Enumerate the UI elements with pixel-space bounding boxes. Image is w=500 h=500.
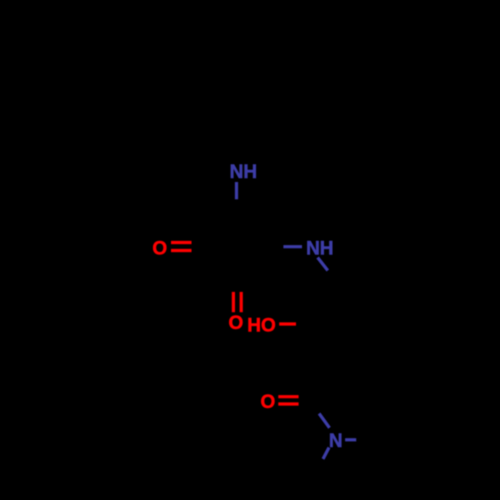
svg-text:HO: HO [247,316,276,337]
svg-text:N: N [329,431,343,452]
svg-text:O: O [261,392,276,413]
svg-text:NH: NH [230,162,257,183]
svg-text:O: O [152,238,167,259]
svg-text:O: O [229,313,244,334]
svg-text:NH: NH [306,239,333,260]
